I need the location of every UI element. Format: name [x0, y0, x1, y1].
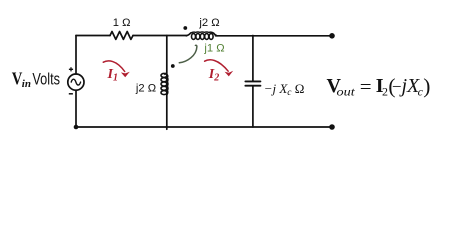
mesh current I2 arrow — [205, 60, 234, 77]
svg-text:I1: I1 — [107, 67, 118, 84]
terminal dot top right — [329, 33, 335, 39]
voltage source VS circle — [68, 74, 84, 90]
capacitor C1 plates — [245, 80, 260, 82]
wire bottom — [76, 126, 332, 128]
polarity plus — [69, 67, 73, 71]
coupling dot L1 — [183, 26, 187, 30]
capacitor C1 branch bottom stub — [252, 86, 254, 127]
polarity minus — [69, 93, 73, 95]
label Vin Volts — [12, 69, 60, 90]
svg-text:I2: I2 — [208, 67, 219, 84]
svg-text:in: in — [22, 78, 31, 90]
svg-text:−j Xc Ω: −j Xc Ω — [264, 81, 305, 98]
svg-text:2: 2 — [382, 85, 388, 99]
coupling dot L2 — [171, 64, 175, 68]
terminal dot bottom right — [329, 124, 335, 130]
svg-text:=: = — [360, 76, 372, 98]
equation Vout = I2(-jXc) — [327, 74, 431, 99]
wire left side with source gap — [75, 36, 77, 75]
coupled inductor L1 j2 ohm horizontal — [186, 32, 217, 39]
capacitor C1 branch top stub — [252, 36, 254, 82]
svg-text:−: − — [392, 77, 402, 96]
wire top right segment — [216, 35, 333, 37]
voltage source sine wave — [71, 79, 80, 85]
svg-text:Volts: Volts — [32, 70, 60, 88]
svg-text:1 Ω: 1 Ω — [113, 17, 131, 29]
inductor L2 branch vertical wire — [166, 36, 168, 130]
svg-text:j2 Ω: j2 Ω — [135, 82, 156, 94]
svg-text:j2 Ω: j2 Ω — [198, 17, 219, 29]
resistor R1 — [110, 32, 133, 40]
wire top middle segment — [133, 35, 187, 37]
svg-text:j1 Ω: j1 Ω — [203, 42, 224, 54]
svg-text:V: V — [12, 69, 23, 89]
junction dot bottom left — [74, 125, 79, 130]
mesh current I1 arrow — [103, 61, 130, 77]
mutual coupling arc — [179, 45, 197, 62]
inductor L2 j2 ohm vertical coil — [161, 72, 168, 95]
svg-text:out: out — [337, 85, 356, 99]
wire top left segment — [76, 35, 110, 37]
svg-text:): ) — [423, 74, 430, 98]
